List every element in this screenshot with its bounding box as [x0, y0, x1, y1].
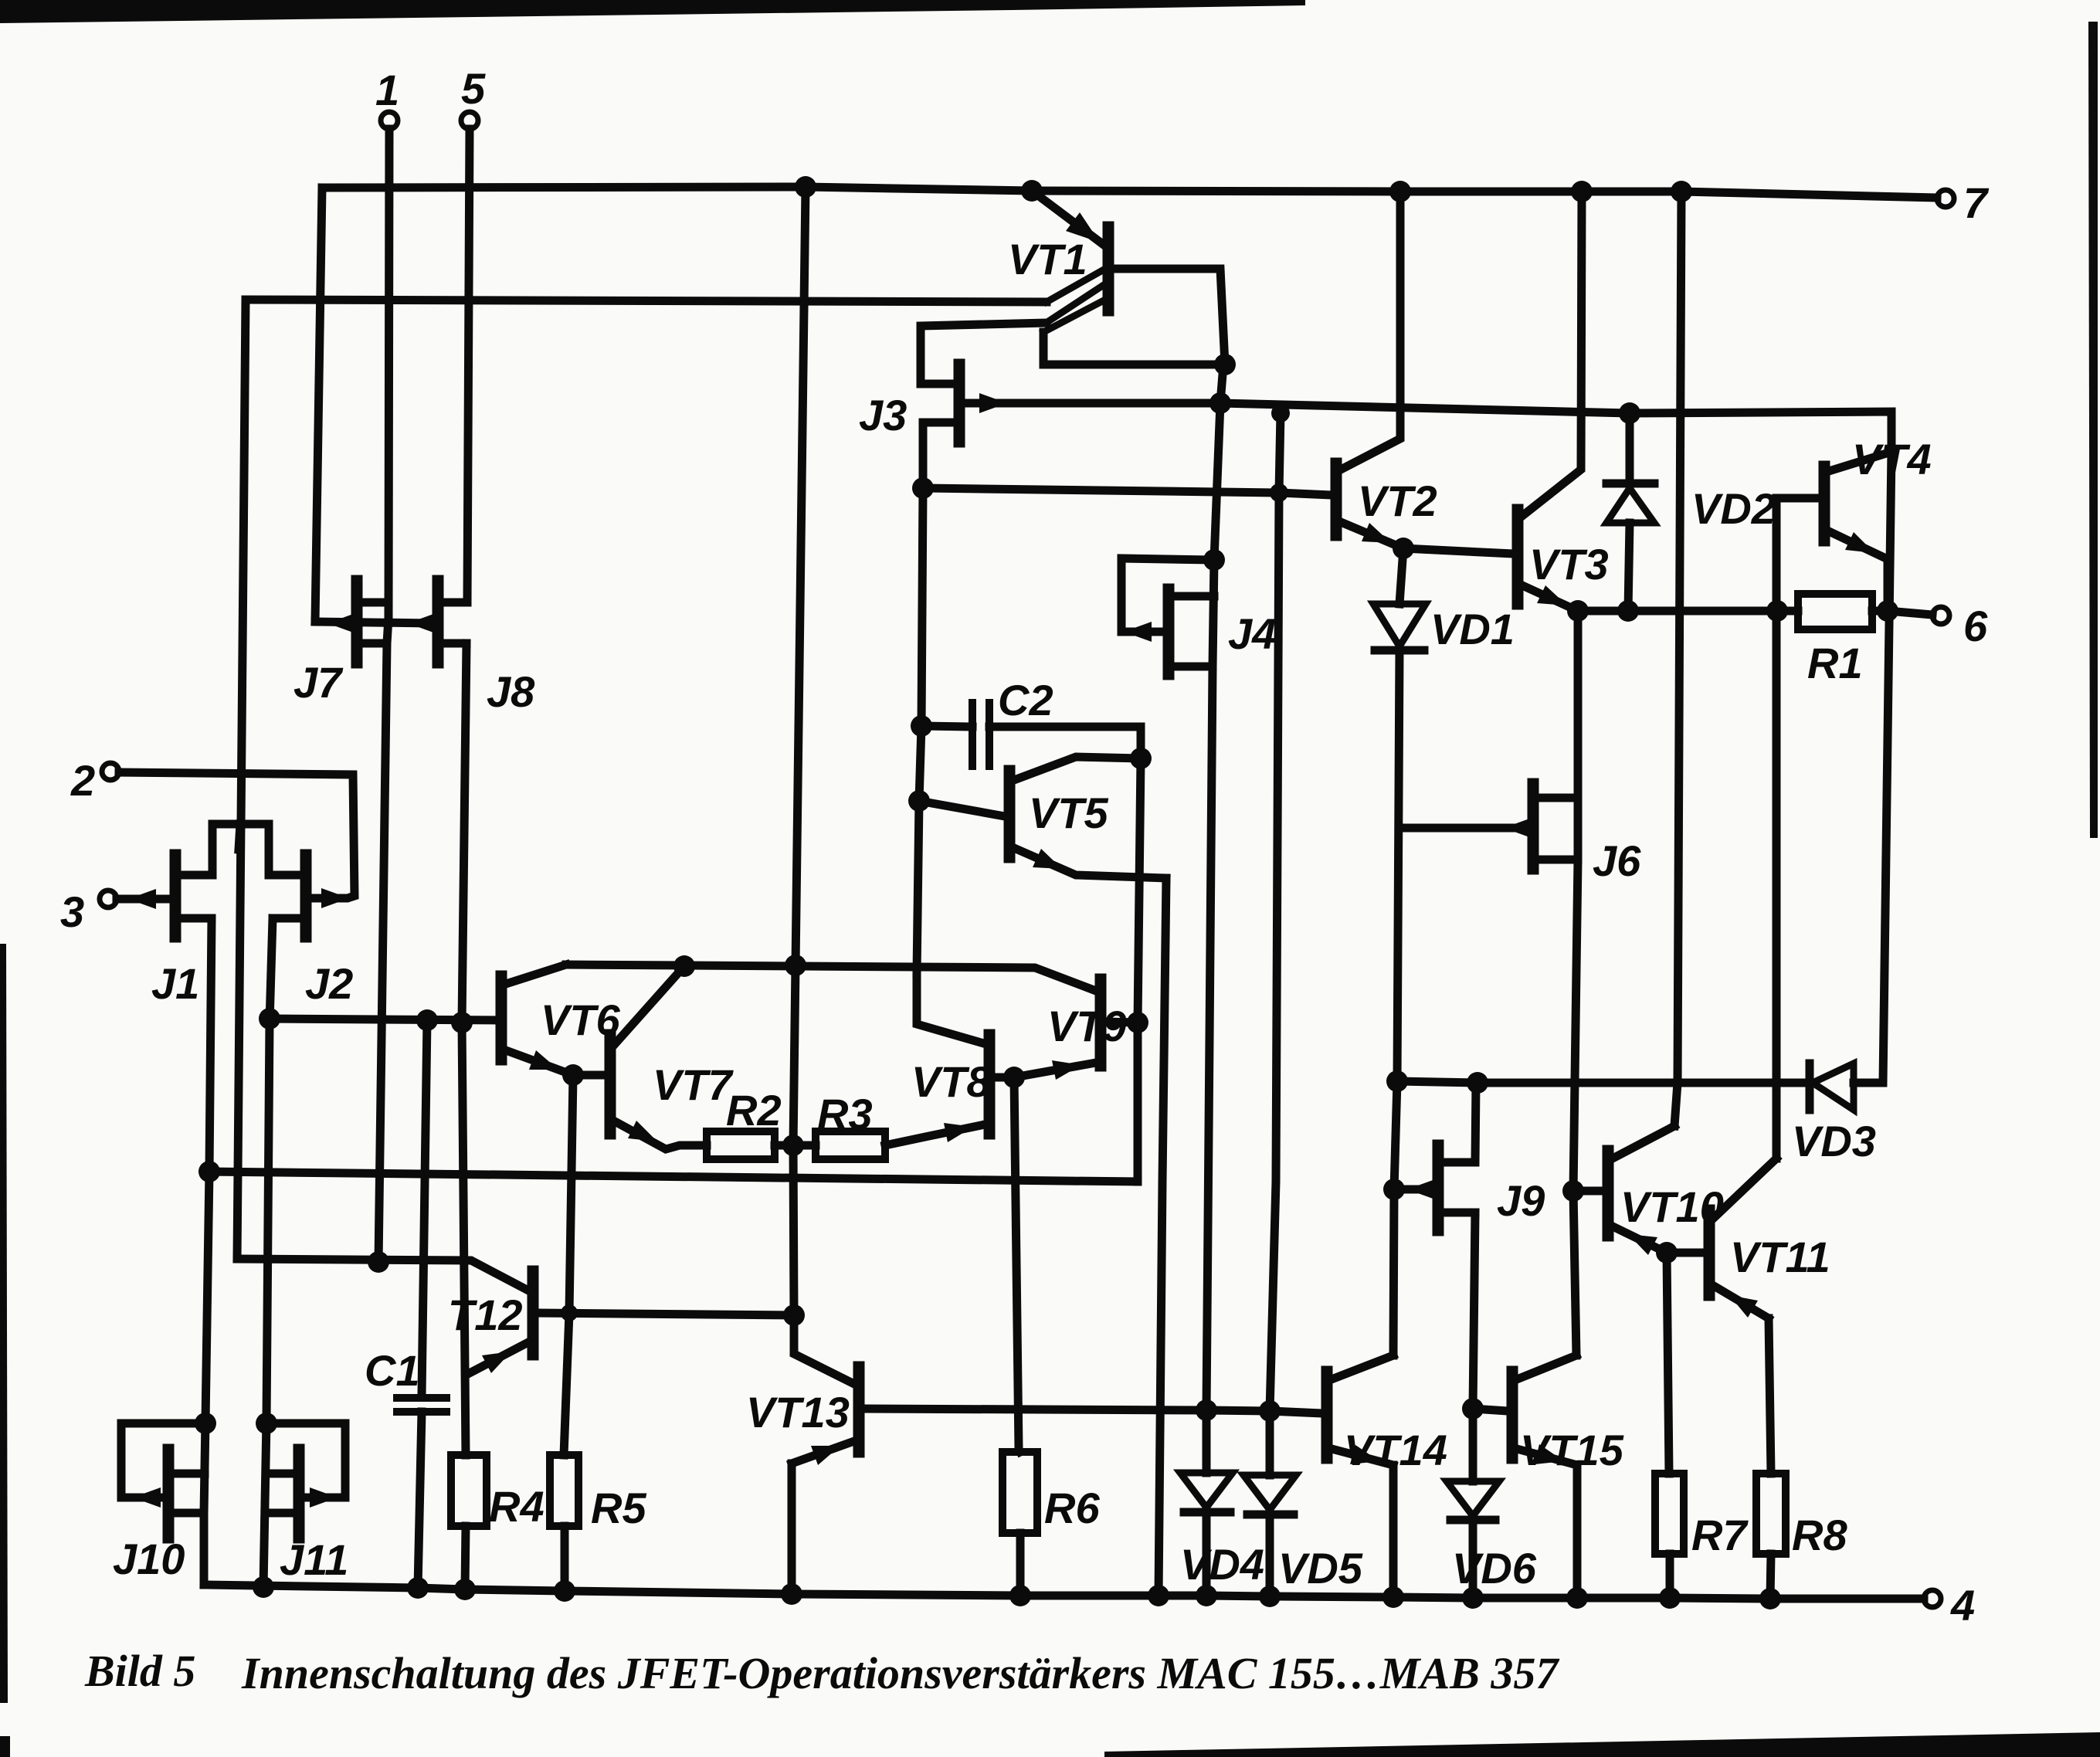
node top bus x2177: [1671, 181, 1692, 202]
node J4 gate: [1203, 549, 1225, 571]
border left black strip: [0, 944, 8, 1703]
svg-text:C1: C1: [365, 1346, 420, 1395]
border right black strip: [2088, 22, 2098, 838]
J3 gate wire with arrow: [964, 399, 1220, 408]
node T12 base R5 crossing: [561, 1304, 578, 1321]
node J10 drain: [195, 1413, 216, 1434]
VT3 emitter with arrow to output node: [1522, 585, 1578, 611]
svg-text:VT8: VT8: [911, 1057, 992, 1106]
svg-text:5: 5: [461, 64, 486, 113]
node top bus x1043: [795, 176, 816, 198]
node ground bus x1500: [1148, 1585, 1169, 1606]
svg-text:R1: R1: [1807, 639, 1863, 687]
wire R5 column from VT6 emitter node: [564, 1075, 573, 1455]
J10 source lead: [173, 1509, 204, 1518]
J7 gate arrow: [327, 613, 355, 633]
node ground bus x341: [253, 1576, 274, 1598]
wire J2 source down to ground bus: [263, 918, 273, 1587]
svg-text:R4: R4: [489, 1482, 545, 1531]
VD6 leads: [1469, 1409, 1477, 1481]
multi-emitter transistor VT1 base bar: [1103, 227, 1114, 310]
J1 drain lead and jog up to bridge: [180, 824, 212, 875]
JFET J8 channel bar: [433, 581, 444, 663]
J11 source lead: [267, 1509, 294, 1518]
diode VD4 cathode bar: [1184, 1508, 1230, 1517]
node J3 source: [912, 477, 934, 499]
J4 drain lead: [1173, 592, 1214, 601]
terminal 1: [381, 112, 398, 129]
resistor R8: [1756, 1474, 1786, 1554]
VT10 base wire: [1573, 1187, 1603, 1196]
transistor VT3 base bar: [1512, 510, 1524, 604]
node ground bus x1562: [1196, 1585, 1217, 1606]
node top bus x2048: [1571, 181, 1593, 202]
diode VD4 triangle: [1180, 1473, 1233, 1508]
node VT6 emitter: [562, 1064, 584, 1086]
J9 gate wire with arrow: [1394, 1185, 1433, 1194]
J9 source lead: [1443, 1209, 1475, 1217]
svg-text:VT6: VT6: [541, 996, 621, 1044]
node J9 gate: [1383, 1179, 1405, 1200]
svg-text:Bild 5: Bild 5: [84, 1646, 195, 1696]
J6 gate wire with arrow: [1399, 824, 1528, 833]
wire VT13 emitter to ground bus: [788, 1464, 796, 1594]
VT13 emitter with arrow: [792, 1441, 854, 1464]
capacitor C2 left plate: [969, 703, 976, 766]
J11 gate arrow: [310, 1487, 338, 1508]
wire VT3-emitter node down through J6 to VT15 collector: [1573, 611, 1578, 1355]
JFET J6 channel bar: [1528, 784, 1539, 869]
wire VT11 emitter down to R8: [1769, 1318, 1771, 1474]
resistor R1: [1798, 594, 1872, 629]
wire VD1 to J6 gate / VT14 collector column: [1393, 650, 1399, 1355]
svg-text:2: 2: [70, 756, 95, 805]
transistor VT6 base bar: [496, 976, 507, 1060]
J7 source lead: [361, 639, 386, 648]
svg-text:Innenschaltung des JFET-Operat: Innenschaltung des JFET-Operationsverstä…: [241, 1648, 1559, 1698]
VT7 collector: [615, 966, 684, 1044]
wire VT10 emitter to VT11 base: [1667, 1249, 1705, 1257]
node ground bus x2162: [1659, 1587, 1681, 1609]
J6 source lead: [1538, 856, 1578, 864]
VT6 collector: [506, 965, 566, 984]
wire VT4-base column down to VT11 collector: [1773, 611, 1781, 1158]
wire left outer vertical down to lower-left wire: [237, 300, 246, 1259]
wire VT1-loop / J4 column: [1206, 365, 1223, 1410]
terminal 5: [461, 112, 478, 129]
transistor VT4 base bar: [1819, 466, 1830, 541]
svg-text:VT10: VT10: [1620, 1182, 1724, 1231]
diode VD6 triangle: [1447, 1481, 1499, 1516]
node R4 column top: [451, 1012, 473, 1033]
VT15 base wire: [1473, 1409, 1508, 1411]
border left bottom mark: [0, 1736, 10, 1757]
J11 gate bracket: [266, 1423, 345, 1498]
node VT5 base: [908, 790, 930, 812]
capacitor C1 top plate: [397, 1394, 446, 1402]
node collector rail x1030: [785, 955, 806, 976]
wire VD3 rail: [1397, 1081, 1807, 1083]
VT14 emitter with arrow: [1332, 1449, 1393, 1465]
terminal 4: [1924, 1590, 1941, 1607]
T12 emitter with arrow: [466, 1342, 528, 1375]
VT3 collector to top bus column: [1522, 192, 1582, 516]
svg-text:VT7: VT7: [653, 1060, 734, 1109]
VD5 leads: [1266, 1411, 1274, 1475]
VT5 collector: [1014, 757, 1141, 780]
transistor VT15 base bar: [1507, 1372, 1518, 1458]
svg-text:VD6: VD6: [1452, 1544, 1537, 1592]
VT13 base wire to VT14 base: [863, 1409, 1322, 1413]
wire terminal2 to J2 gate corner: [119, 772, 355, 898]
node VT5 collector / C2: [1130, 748, 1152, 769]
svg-text:T12: T12: [448, 1291, 523, 1339]
node VD4 top: [1196, 1399, 1217, 1421]
svg-text:VD4: VD4: [1180, 1540, 1264, 1589]
node ground bus x2292: [1759, 1588, 1781, 1609]
VT9 emitter with arrow to VT8 base node: [1014, 1063, 1096, 1077]
svg-text:J7: J7: [293, 658, 344, 707]
JFET J4 channel bar: [1163, 589, 1175, 674]
svg-text:J4: J4: [1228, 609, 1276, 658]
node J9 drain riser: [1467, 1072, 1488, 1094]
svg-text:VT9: VT9: [1047, 1002, 1127, 1050]
wire J8 source continuation down to VT6 base rail: [462, 643, 466, 1023]
wire R4 bottom to ground bus: [465, 1526, 466, 1589]
node ground bus x731: [554, 1580, 575, 1602]
node ground bus x1907: [1462, 1587, 1484, 1609]
wire T12 collector rail: [237, 1259, 530, 1291]
terminal 7: [1937, 190, 1954, 207]
wire J1 source down to lower-left: [205, 918, 212, 1421]
svg-text:VT3: VT3: [1529, 540, 1609, 588]
svg-text:R7: R7: [1691, 1511, 1749, 1559]
wire J3 source column: [917, 488, 923, 973]
JFET J9 channel bar: [1433, 1145, 1444, 1230]
wire VT10 emitter down to R7: [1667, 1253, 1669, 1474]
wire R1 right to terminal 6: [1872, 611, 1932, 615]
node ground bus x602: [454, 1579, 476, 1600]
wire lower-left horizontal (J10 gate rail to VT9 base column): [209, 1172, 1138, 1182]
node J1 source rail: [198, 1161, 220, 1182]
svg-text:J9: J9: [1497, 1176, 1545, 1225]
J7 drain lead: [361, 599, 388, 607]
J8 gate arrow: [408, 613, 436, 633]
wire VT13 collector column (from R2/R3 node up to collector rail): [793, 965, 796, 1315]
J10 drain lead: [173, 1470, 205, 1478]
svg-text:J2: J2: [305, 959, 353, 1008]
node gate rail riser: [1271, 404, 1290, 422]
VD2 top lead: [1626, 413, 1634, 483]
wire second horizontal (VT1 emitter A feed): [246, 300, 1047, 302]
wire terminal5 down to J8: [467, 129, 470, 602]
terminal 3: [100, 890, 117, 907]
svg-text:VT1: VT1: [1008, 235, 1087, 283]
wire VT10 collector column (top bus to VT10): [1674, 192, 1681, 1126]
diode VD5 cathode bar: [1247, 1511, 1294, 1519]
node VT1 loop corner: [1214, 354, 1236, 375]
node VD3 rail left: [1386, 1070, 1408, 1092]
wire VT2 emitter to VT3 base: [1403, 548, 1513, 554]
svg-text:4: 4: [1950, 1581, 1975, 1630]
VT2 collector to top bus column: [1341, 192, 1400, 470]
border top black bar: [0, 0, 1305, 23]
svg-text:VT5: VT5: [1029, 789, 1109, 837]
J4 source lead: [1173, 663, 1213, 671]
node VD5 top: [1259, 1400, 1281, 1422]
transistor VT9 base bar: [1095, 979, 1107, 1066]
wire VT4 emitter down to R1 right node: [1884, 559, 1892, 611]
svg-text:1: 1: [375, 66, 399, 114]
VT5 base wire: [919, 801, 1005, 816]
J2 source lead: [273, 914, 301, 923]
diode VD5 triangle: [1243, 1475, 1296, 1510]
VT9 base wire: [1105, 1022, 1138, 1023]
node VT2 emitter: [1393, 538, 1414, 559]
J10 gate arrow: [133, 1487, 161, 1508]
wire terminal1 down through J7 to dot at 1636: [378, 129, 389, 1262]
resistor R6: [1003, 1452, 1037, 1533]
wire VT15 emitter down to ground bus: [1573, 1465, 1582, 1598]
VT8 collector to J3-source column: [917, 973, 986, 1044]
wire R3 to VT8 emitter with arrow: [885, 1124, 985, 1145]
VT1 collector diagonal with arrow from top bus: [1032, 191, 1104, 245]
transistor VT11 base bar: [1704, 1210, 1715, 1295]
wire ground bus pin4: [204, 1585, 1924, 1599]
svg-text:VD5: VD5: [1278, 1544, 1363, 1592]
wire J9 source down to VT15 base node: [1473, 1213, 1475, 1409]
node J3 gate rail: [1209, 392, 1231, 414]
svg-text:J8: J8: [487, 667, 535, 716]
transistor VT8 base bar: [984, 1035, 996, 1134]
wire supply column from top bus down to collector rail: [796, 187, 806, 965]
wire VT6 emitter to VT7 base: [573, 1071, 606, 1080]
VT11 emitter with arrow: [1714, 1286, 1769, 1318]
wire C1 bottom to ground bus: [418, 1412, 422, 1588]
J3 source lead down: [923, 422, 955, 488]
node C2 left: [911, 715, 932, 737]
wire long vertical through bridge (from upper-left loop): [239, 824, 240, 850]
svg-text:C2: C2: [998, 676, 1053, 724]
capacitor C1 bottom plate: [397, 1408, 446, 1416]
wire VT2 base rail: [923, 488, 1332, 495]
VT14 collector: [1332, 1355, 1393, 1379]
transistor T12 base bar: [528, 1271, 539, 1355]
svg-text:J10: J10: [113, 1535, 185, 1583]
VT1 emitter 3 diagonal: [1043, 300, 1105, 332]
wire top supply bus pin7: [322, 187, 1937, 198]
node bridge above J1/J2: [212, 820, 269, 829]
node ground bus x541: [407, 1577, 429, 1599]
JFET J10 channel bar: [163, 1450, 175, 1538]
VD4 leads: [1203, 1410, 1211, 1473]
terminal 2: [102, 763, 119, 780]
node VD2 top: [1619, 402, 1640, 424]
wire input-stage drain rail (VT6 base rail): [270, 1019, 499, 1020]
resistor R5: [550, 1455, 578, 1526]
node VT15 base: [1462, 1398, 1484, 1420]
wire J10 source down to ground bus start: [204, 1421, 205, 1585]
VT13 collector from T12-base node: [794, 1315, 854, 1384]
svg-text:VT11: VT11: [1730, 1233, 1830, 1281]
svg-text:R6: R6: [1044, 1484, 1100, 1532]
node VD2 anode output rail: [1617, 600, 1639, 622]
wire collector rail of input pair: [566, 965, 1096, 991]
J8 source lead: [443, 639, 466, 648]
svg-text:J6: J6: [1593, 836, 1641, 885]
J11 drain lead: [266, 1470, 294, 1478]
resistor R2: [707, 1131, 775, 1159]
wire R4 column from VT6-base rail down to R4: [462, 1023, 466, 1455]
VT1 emitter 2 diagonal: [1047, 283, 1106, 322]
node VT2 base rail riser: [1270, 483, 1288, 502]
wire short riser VD2-gate-rail to VT2 base rail: [1279, 413, 1281, 493]
VT4 base bracket down to output node: [1776, 498, 1820, 611]
VT5 emitter with arrow: [1014, 848, 1166, 878]
svg-text:VT15: VT15: [1520, 1426, 1624, 1474]
J8 drain lead: [443, 599, 467, 607]
svg-text:VD1: VD1: [1430, 605, 1515, 653]
svg-text:3: 3: [60, 887, 84, 936]
J1 gate arrow: [128, 889, 156, 909]
VT8 base wire: [994, 1074, 1014, 1082]
svg-text:6: 6: [1963, 602, 1988, 650]
VT15 emitter with arrow: [1517, 1449, 1577, 1465]
node VT10 base: [1562, 1180, 1584, 1202]
wire J7/J8 gate rail: [315, 622, 433, 623]
J1 source lead: [180, 914, 212, 923]
VT7 emitter with arrow to R2: [615, 1121, 707, 1149]
VD3 right lead up to VT4 collector feed: [1854, 452, 1891, 1083]
transistor VT2 base bar: [1331, 463, 1342, 535]
node ground bus x2042: [1566, 1587, 1588, 1609]
wire R2-R3 link: [775, 1141, 816, 1150]
svg-text:VT13: VT13: [746, 1388, 850, 1436]
wire R6 bottom to ground bus: [1016, 1533, 1025, 1596]
J6 drain lead: [1538, 794, 1578, 802]
VT10 collector: [1613, 1126, 1674, 1158]
J9 drain lead: [1443, 1083, 1476, 1162]
node J7 source bottom: [368, 1251, 389, 1273]
wire R7 bottom to ground bus: [1666, 1554, 1674, 1598]
node VT3 emitter output: [1567, 600, 1589, 622]
transistor VT5 base bar: [1004, 771, 1016, 857]
svg-text:VT2: VT2: [1358, 477, 1437, 525]
svg-text:J11: J11: [280, 1535, 348, 1584]
VT1 right lead and loop: [1043, 269, 1225, 365]
JFET J1 channel bar: [170, 855, 182, 937]
J2 drain lead from bridge: [269, 824, 301, 875]
border bottom black wedge: [1104, 1732, 2100, 1757]
node top bus VT1: [1021, 180, 1043, 202]
wire left branch from top bus down to J7/J8 gate: [315, 188, 322, 622]
transistor VT13 base bar: [853, 1367, 865, 1452]
node C1 top: [416, 1009, 438, 1031]
node ground bus x1804: [1382, 1586, 1404, 1608]
node VT8 base: [1003, 1067, 1025, 1088]
VT2 emitter with arrow: [1341, 522, 1403, 548]
svg-text:VD2: VD2: [1691, 484, 1776, 533]
svg-text:R5: R5: [591, 1484, 646, 1532]
VT15 collector: [1517, 1355, 1576, 1379]
wire VD5 column (VT2 base rail down to VD5): [1270, 493, 1279, 1411]
node J11 drain: [256, 1413, 277, 1434]
C2 right lead to VT5 collector node: [989, 727, 1141, 758]
node R1 right: [1877, 600, 1898, 622]
J2 gate arrow: [321, 888, 349, 908]
VT1 emitter 1 diagonal: [1047, 269, 1105, 302]
svg-text:VD3: VD3: [1792, 1117, 1876, 1165]
VD2 bottom lead to output rail: [1628, 523, 1630, 611]
resistor R7: [1655, 1474, 1684, 1554]
wire VT5 emitter column down to ground bus: [1159, 878, 1166, 1596]
diode VD3 triangle: [1813, 1063, 1854, 1110]
J4 gate bracket with arrow: [1121, 558, 1214, 632]
transistor VT7 base bar: [605, 1035, 616, 1134]
C2 left lead: [921, 726, 972, 727]
svg-text:J1: J1: [151, 959, 199, 1008]
wire R8 bottom to ground bus: [1770, 1554, 1771, 1599]
node top bus x1813: [1389, 181, 1411, 202]
resistor R3: [816, 1131, 885, 1159]
VT6 emitter with arrow: [506, 1050, 573, 1075]
node ground bus x1321: [1009, 1585, 1031, 1606]
wire emitter2 feed from J3 drain corner: [921, 323, 1047, 384]
resistor R4: [451, 1455, 487, 1526]
capacitor C2 right plate: [986, 703, 993, 766]
node VT9 base: [1127, 1012, 1148, 1033]
wire VT8 base / VT9 emitter node down to R6: [1014, 1077, 1020, 1452]
transistor VT14 base bar: [1321, 1372, 1333, 1458]
node VT6 base rail start: [259, 1008, 280, 1029]
diode VD2 cathode bar: [1606, 480, 1654, 488]
node T12 base / VT13 collector: [783, 1304, 805, 1326]
diode VD1: [1399, 548, 1403, 604]
svg-text:R2: R2: [726, 1086, 782, 1135]
wire VT9 base column (from VT5 collector): [1138, 758, 1141, 1182]
svg-text:R8: R8: [1792, 1511, 1847, 1559]
svg-text:R3: R3: [817, 1090, 873, 1138]
diode VD6 cathode bar: [1450, 1516, 1495, 1525]
wire J3 gate rail to VT4 collector corner: [1220, 403, 1891, 471]
VT10 emitter with arrow: [1613, 1226, 1667, 1253]
node R1 left: [1766, 600, 1788, 622]
svg-text:7: 7: [1963, 178, 1990, 227]
wire R5 bottom to ground bus: [561, 1526, 569, 1591]
JFET J2 channel bar: [300, 855, 312, 937]
node R2-R3 mid: [782, 1135, 804, 1156]
T12 base wire to VT13 collector node: [538, 1313, 794, 1315]
transistor VT10 base bar: [1603, 1151, 1614, 1236]
VT11 collector: [1714, 1158, 1776, 1218]
svg-text:VT4: VT4: [1852, 435, 1932, 483]
svg-text:J3: J3: [859, 391, 907, 439]
VT4 emitter with arrow: [1829, 531, 1888, 559]
JFET J7 channel bar: [351, 581, 363, 663]
node VT10 emitter / VT11 base: [1656, 1242, 1678, 1263]
svg-text:VT14: VT14: [1344, 1426, 1447, 1474]
node collector rail x886: [673, 955, 695, 977]
JFET J11 channel bar: [293, 1450, 305, 1538]
diode VD3 cathode bar: [1806, 1063, 1814, 1110]
wire C1 column from rail down: [422, 1020, 427, 1395]
node ground bus x1025: [781, 1583, 802, 1605]
wire VT14 emitter down to ground bus: [1389, 1465, 1398, 1597]
wire output rail (pin 6 node): [1578, 607, 1798, 616]
J10 gate bracket from node wire: [121, 1423, 205, 1498]
wire terminal3 to J1 gate: [117, 895, 171, 904]
node ground bus x1644: [1259, 1586, 1281, 1607]
